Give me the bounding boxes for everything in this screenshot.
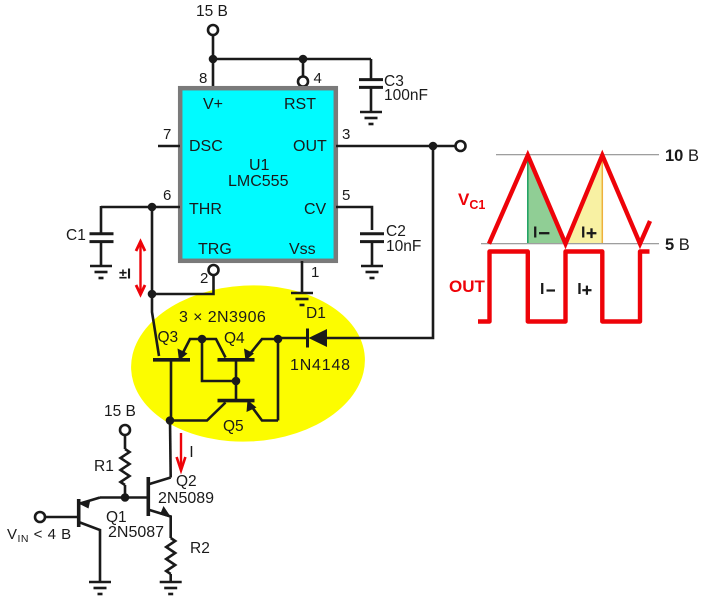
pin number 3 — [342, 126, 350, 143]
wire node to Q3 collector — [152, 294, 159, 356]
transistor Q4 — [202, 330, 278, 381]
capacitor C1 — [66, 206, 114, 265]
svg-text:5 B: 5 B — [665, 236, 690, 254]
label 5 B — [665, 236, 690, 254]
wire DSC stub pin 7 — [158, 145, 180, 148]
svg-text:6: 6 — [163, 187, 171, 204]
waveform: bottom reference line 5 B — [481, 243, 659, 245]
svg-text:I: I — [581, 224, 585, 241]
wire VIN to Q1 base — [46, 516, 78, 519]
capacitor C2 — [360, 223, 421, 265]
resistor R1 — [94, 449, 130, 485]
svg-text:OUT: OUT — [449, 277, 486, 296]
pin number 4 — [314, 70, 322, 87]
terminal VIN — [35, 512, 45, 522]
junction base node — [121, 493, 130, 502]
svg-text:1: 1 — [311, 264, 319, 281]
pin number 7 — [163, 126, 171, 143]
terminal 15 B top — [208, 25, 218, 35]
junction node B (Q4e/D1/Q5e) — [274, 335, 283, 344]
svg-text:7: 7 — [163, 126, 171, 143]
wire CV pin 5 — [336, 207, 372, 230]
svg-text:R1: R1 — [94, 458, 114, 475]
svg-text:THR: THR — [189, 201, 222, 218]
label I+ on triangle — [581, 224, 596, 241]
wire node C down to Q2 — [169, 421, 172, 478]
svg-text:Vss: Vss — [289, 241, 316, 258]
arrow I (current) — [177, 433, 194, 470]
shaded area I- (green) — [528, 158, 565, 243]
svg-text:CV: CV — [304, 201, 327, 218]
junction node A (Q3e/Q4c) — [198, 335, 207, 344]
junction OUT — [429, 142, 438, 151]
svg-text:3: 3 — [342, 126, 350, 143]
wire TRG to node — [152, 276, 214, 295]
op IC U1 LMC555 box — [180, 88, 336, 261]
wire OUT vertical to diode — [327, 146, 433, 338]
resistor R2 — [166, 538, 210, 574]
shaded area I+ (yellow) — [567, 158, 603, 243]
junction TRG node — [148, 290, 157, 299]
svg-text:Q3: Q3 — [158, 329, 179, 346]
svg-text:VIN < 4 B: VIN < 4 B — [7, 526, 72, 545]
wire to R1 — [124, 436, 127, 450]
svg-text:5: 5 — [342, 187, 350, 204]
wire R1 to base node — [124, 485, 127, 498]
svg-text:15 B: 15 B — [104, 403, 136, 420]
label I+ on square — [577, 281, 591, 298]
svg-text:TRG: TRG — [198, 241, 232, 258]
square waveform OUT — [478, 252, 650, 322]
svg-text:I: I — [189, 444, 193, 461]
svg-text:2N5089: 2N5089 — [158, 490, 214, 507]
label OUT (waveform) — [449, 277, 486, 296]
triangle waveform VC1 — [489, 155, 650, 243]
svg-text:10 B: 10 B — [665, 147, 699, 165]
svg-text:8: 8 — [199, 70, 207, 87]
svg-text:±I: ±I — [119, 267, 131, 283]
svg-text:RST: RST — [284, 96, 316, 113]
wire R2 to ground — [169, 574, 172, 581]
pin number 6 — [163, 187, 171, 204]
label 15 B (lower supply) — [104, 403, 136, 420]
svg-text:V+: V+ — [203, 96, 223, 113]
junction node C (bottom rail) — [166, 416, 175, 425]
svg-text:4: 4 — [314, 70, 322, 87]
pin number 5 — [342, 187, 350, 204]
svg-text:10nF: 10nF — [386, 238, 421, 255]
capacitor C3 — [359, 59, 428, 111]
label I- on square — [540, 281, 555, 298]
terminal 15 B lower — [120, 425, 130, 435]
pin number 1 — [311, 264, 319, 281]
wire supply vertical — [212, 36, 215, 60]
svg-text:1N4148: 1N4148 — [290, 357, 351, 374]
svg-text:C1: C1 — [66, 227, 86, 244]
ground for C1 — [90, 266, 112, 278]
wire pin 8 — [212, 59, 215, 87]
arrow plus-minus I — [119, 242, 145, 295]
svg-text:2: 2 — [200, 270, 208, 287]
svg-text:Q5: Q5 — [223, 418, 244, 435]
ground for R2 — [160, 582, 182, 594]
pin 2 inversion circle (TRG) — [209, 265, 219, 275]
svg-text:DSC: DSC — [189, 138, 223, 155]
svg-text:R2: R2 — [190, 540, 210, 557]
terminal OUT — [456, 141, 466, 151]
diode D1 1N4148 — [290, 305, 351, 374]
svg-text:VC1: VC1 — [458, 190, 485, 212]
svg-text:2N5087: 2N5087 — [108, 524, 164, 541]
wire base rail — [100, 496, 147, 499]
svg-text:15 B: 15 B — [196, 3, 228, 20]
wire node A to bases — [202, 339, 236, 381]
svg-text:3 × 2N3906: 3 × 2N3906 — [179, 309, 266, 326]
ground for Vss — [291, 293, 313, 305]
svg-text:OUT: OUT — [293, 138, 327, 155]
svg-text:Q2: Q2 — [176, 473, 197, 490]
label 3 x 2N3906 — [179, 309, 266, 326]
ground for Q1 — [89, 582, 111, 594]
svg-text:I: I — [540, 281, 544, 298]
ground for C3 — [360, 112, 382, 124]
label VIN < 4 B — [7, 526, 72, 545]
wire node B to diode — [278, 337, 307, 340]
transistor Q2 — [148, 473, 214, 538]
wire pin 4 — [302, 59, 305, 76]
transistor Q3 — [153, 329, 202, 421]
label 15 B (top supply) — [196, 3, 228, 20]
wire top rail — [213, 58, 371, 61]
transistor Q5 — [170, 381, 278, 435]
wire OUT pin 3 — [336, 145, 455, 148]
wire node B vertical — [277, 339, 280, 421]
label 10 B — [665, 147, 699, 165]
wire THR pin 6 — [101, 206, 180, 209]
svg-text:Q4: Q4 — [224, 330, 245, 347]
ground for C2 — [361, 266, 383, 278]
label VC1 — [458, 190, 485, 212]
svg-text:D1: D1 — [306, 305, 326, 322]
junction THR — [148, 203, 157, 212]
svg-text:LMC555: LMC555 — [228, 173, 289, 190]
junction pin8 rail — [209, 55, 218, 64]
svg-text:100nF: 100nF — [384, 87, 428, 104]
svg-text:I: I — [577, 281, 581, 298]
label I- on triangle — [533, 224, 549, 241]
junction pin4 rail — [299, 55, 308, 64]
junction bases Q4 Q5 — [232, 377, 241, 386]
pin 4 inversion circle (RST) — [298, 77, 308, 87]
wire THR-TRG vertical — [151, 207, 154, 294]
wire Vss pin 1 — [301, 261, 304, 292]
transistor Q1 — [79, 498, 164, 582]
svg-text:U1: U1 — [249, 157, 270, 174]
highlight ellipse around current mirror — [127, 279, 369, 447]
waveform: top reference line 10 B — [496, 154, 659, 156]
pin number 8 — [199, 70, 207, 87]
svg-text:I: I — [533, 224, 537, 241]
pin number 2 — [200, 270, 208, 287]
